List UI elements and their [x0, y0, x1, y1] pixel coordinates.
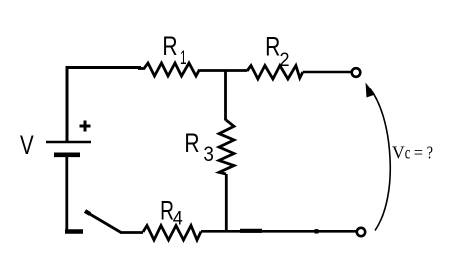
label R2 [265, 32, 289, 70]
switch S1 contact [65, 229, 83, 233]
wire [200, 69, 248, 72]
wire [120, 231, 143, 234]
svg-text:4: 4 [173, 207, 183, 229]
switch S1 blade [85, 211, 121, 233]
resistor R2 [247, 66, 303, 80]
svg-text:=: = [414, 143, 423, 163]
wire (thick segment) [240, 229, 319, 234]
terminal (bottom output) [357, 228, 365, 236]
svg-text:3: 3 [203, 143, 214, 166]
svg-text:c: c [405, 143, 411, 162]
label + polarity [80, 121, 91, 132]
svg-text:R: R [265, 32, 280, 62]
node B (junction of R3, R4, bottom wire) [201, 230, 356, 233]
wire [67, 68, 141, 143]
node A (junction of R1, R2, R3) [224, 70, 227, 121]
svg-text:V: V [20, 130, 34, 160]
svg-text:2: 2 [280, 49, 290, 71]
wire [303, 71, 351, 73]
svg-text:R: R [162, 32, 177, 62]
svg-text:V: V [392, 142, 405, 162]
wire [65, 157, 68, 230]
wire [225, 174, 228, 230]
svg-text:1: 1 [180, 48, 187, 68]
annotation arrow for Vc [366, 83, 391, 231]
resistor R4 [143, 226, 201, 241]
label R1 [162, 32, 186, 69]
label Vc = ? [392, 142, 433, 163]
label V [20, 130, 34, 160]
resistor R1 [138, 63, 200, 76]
voltage source V (battery) [46, 142, 91, 155]
resistor R3 [219, 120, 234, 174]
label R3 [184, 129, 214, 167]
label R4 [160, 195, 183, 228]
svg-text:?: ? [427, 144, 433, 163]
svg-text:R: R [184, 129, 199, 159]
terminal (top output) [352, 68, 361, 77]
